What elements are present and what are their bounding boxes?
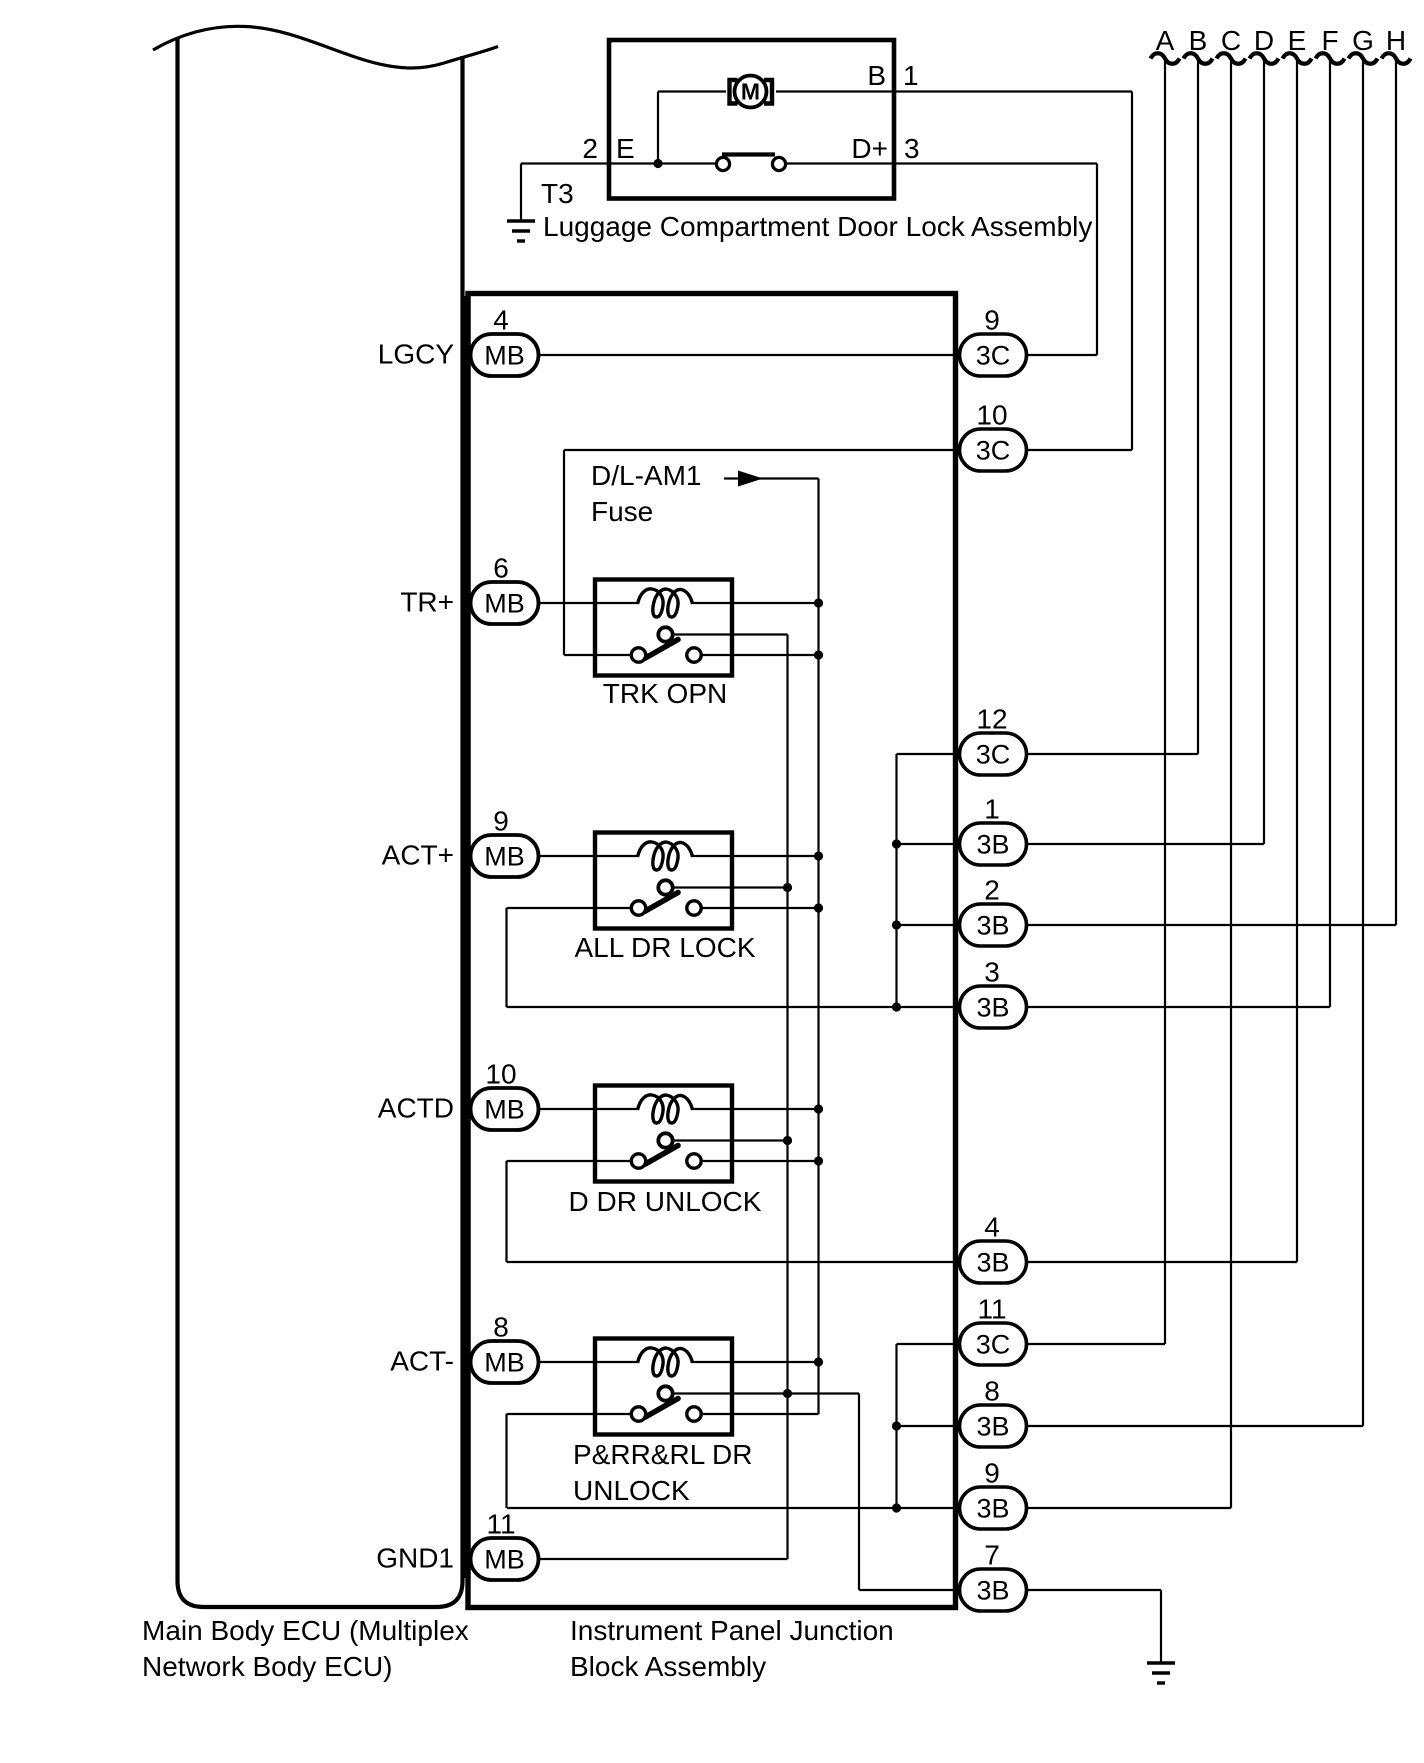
svg-text:3: 3: [904, 133, 920, 164]
svg-text:Luggage Compartment Door Lock: Luggage Compartment Door Lock Assembly: [543, 211, 1092, 242]
svg-text:E: E: [616, 133, 635, 164]
svg-text:Network Body ECU): Network Body ECU): [142, 1651, 393, 1682]
svg-text:3B: 3B: [976, 1412, 1009, 1442]
svg-text:Block Assembly: Block Assembly: [570, 1651, 766, 1682]
svg-text:MB: MB: [484, 842, 525, 872]
svg-text:6: 6: [493, 553, 509, 584]
svg-text:D DR UNLOCK: D DR UNLOCK: [569, 1186, 762, 1217]
svg-text:3B: 3B: [976, 830, 1009, 860]
svg-text:10: 10: [976, 400, 1007, 431]
svg-text:Instrument Panel Junction: Instrument Panel Junction: [570, 1615, 894, 1646]
svg-text:T3: T3: [541, 178, 574, 209]
svg-text:TR+: TR+: [400, 587, 454, 618]
svg-text:4: 4: [984, 1212, 1000, 1243]
svg-text:Main Body ECU (Multiplex: Main Body ECU (Multiplex: [142, 1615, 469, 1646]
svg-text:8: 8: [984, 1376, 1000, 1407]
svg-text:10: 10: [485, 1059, 516, 1090]
svg-text:4: 4: [493, 305, 509, 336]
svg-text:11: 11: [486, 1509, 515, 1540]
svg-text:3C: 3C: [976, 436, 1011, 466]
svg-text:9: 9: [493, 806, 509, 837]
svg-text:B: B: [867, 60, 886, 91]
svg-text:3B: 3B: [976, 1248, 1009, 1278]
svg-text:3B: 3B: [976, 1494, 1009, 1524]
svg-text:3B: 3B: [976, 993, 1009, 1023]
svg-text:9: 9: [984, 305, 1000, 336]
svg-text:D/L-AM1: D/L-AM1: [591, 460, 701, 491]
svg-text:D+: D+: [851, 133, 888, 164]
svg-text:9: 9: [984, 1458, 1000, 1489]
svg-text:8: 8: [493, 1312, 509, 1343]
svg-text:3C: 3C: [976, 341, 1011, 371]
svg-text:12: 12: [976, 704, 1007, 735]
svg-text:M: M: [741, 79, 760, 105]
svg-text:MB: MB: [484, 589, 525, 619]
svg-text:1: 1: [984, 794, 1000, 825]
svg-text:11: 11: [977, 1294, 1006, 1325]
svg-text:3B: 3B: [976, 911, 1009, 941]
svg-text:P&RR&RL DR: P&RR&RL DR: [573, 1439, 752, 1470]
svg-text:3C: 3C: [976, 1330, 1011, 1360]
svg-text:GND1: GND1: [376, 1543, 454, 1574]
svg-text:MB: MB: [484, 1348, 525, 1378]
svg-text:3B: 3B: [976, 1576, 1009, 1606]
svg-text:Fuse: Fuse: [591, 496, 653, 527]
svg-text:ACT-: ACT-: [390, 1346, 454, 1377]
svg-text:3C: 3C: [976, 740, 1011, 770]
svg-text:LGCY: LGCY: [378, 339, 455, 370]
svg-text:UNLOCK: UNLOCK: [573, 1475, 690, 1506]
svg-text:2: 2: [984, 875, 1000, 906]
svg-text:2: 2: [582, 133, 598, 164]
svg-text:ALL DR LOCK: ALL DR LOCK: [574, 932, 755, 963]
svg-text:7: 7: [984, 1540, 1000, 1571]
svg-text:ACT+: ACT+: [382, 840, 454, 871]
svg-text:1: 1: [903, 60, 919, 91]
svg-text:MB: MB: [484, 1545, 525, 1575]
svg-text:MB: MB: [484, 1095, 525, 1125]
svg-text:3: 3: [984, 957, 1000, 988]
svg-text:TRK OPN: TRK OPN: [603, 678, 727, 709]
svg-text:ACTD: ACTD: [378, 1093, 454, 1124]
svg-text:MB: MB: [484, 341, 525, 371]
